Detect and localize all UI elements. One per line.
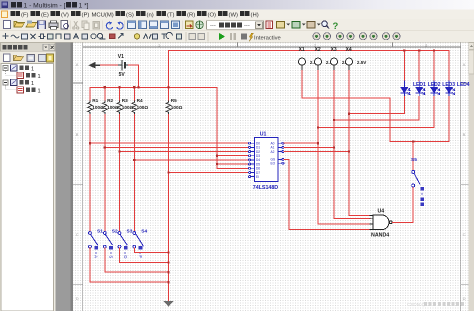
- print: [49, 21, 58, 30]
- svg-text:100Ω: 100Ω: [171, 105, 183, 110]
- wire: LED1 drop from rail: [403, 50, 405, 80]
- resistor R4: [132, 98, 148, 114]
- wire: X2 column down to NAND input 3: [318, 71, 370, 225]
- svg-text:D: D: [76, 296, 79, 301]
- wire: D5 from bus drop: [217, 163, 248, 165]
- wire: battery right lead down to bus: [129, 65, 139, 87]
- svg-text:R2: R2: [107, 98, 113, 103]
- open sample: [26, 21, 37, 28]
- magnifier: [322, 21, 329, 29]
- svg-text:1: 1: [31, 67, 34, 73]
- resistor R5: [166, 98, 182, 114]
- svg-text:S3: S3: [127, 229, 133, 235]
- svg-text:2.5V: 2.5V: [357, 60, 367, 65]
- wire: S3 bottom staircase to ground column: [120, 248, 169, 262]
- svg-text:1 - Multisim - [: 1 - Multisim - [: [24, 3, 66, 10]
- svg-text:100Ω: 100Ω: [137, 105, 149, 110]
- transfer icons: [186, 21, 194, 29]
- svg-text:---: ---: [244, 23, 250, 29]
- resistor R1: [88, 98, 104, 114]
- switch S3: [118, 229, 133, 259]
- wire: X3 column down to NAND input 2: [334, 71, 370, 219]
- save: [38, 21, 46, 29]
- wire: top rail to LEDs: [169, 49, 450, 51]
- wire: D7 from R5 column: [169, 172, 249, 174]
- title text: 设计1 - Multisim - [设计1 *]: [11, 2, 89, 10]
- svg-text:= A: = A: [94, 252, 99, 258]
- svg-text:C: C: [463, 232, 466, 237]
- svg-text:B: B: [76, 132, 79, 137]
- svg-text:A: A: [463, 62, 466, 67]
- svg-text:(P): (P): [82, 12, 90, 18]
- sheet frame lines: [83, 43, 461, 311]
- wire: LED2 bottom to X3 column: [334, 96, 419, 120]
- wire: GS to NAND input 4: [284, 159, 370, 229]
- child 2: [5, 85, 7, 89]
- wire: R4 column: [133, 87, 135, 231]
- svg-text:(E): (E): [41, 12, 49, 18]
- wire: riser from bus to top rail: [168, 50, 170, 87]
- wire: A2 to X4 column: [284, 151, 349, 153]
- menu bar: [0, 10, 474, 20]
- svg-text:?: ?: [333, 21, 339, 32]
- svg-text:U1: U1: [260, 131, 267, 137]
- toolbar row 2: [0, 31, 474, 43]
- wire: S1 bottom staircase to ground column: [90, 248, 169, 282]
- wire: S2 bottom staircase to ground column: [105, 248, 169, 272]
- svg-text:R4: R4: [137, 98, 143, 103]
- switch S5: [411, 142, 425, 206]
- svg-text:(O): (O): [208, 12, 217, 18]
- IC U1 74LS148D: [253, 131, 278, 191]
- svg-text:V1: V1: [118, 54, 124, 60]
- wire: bus drop to U1 D3 D5 D6: [216, 87, 218, 168]
- wire: LED3 bottom to X2 column: [318, 96, 434, 127]
- svg-text:S2: S2: [112, 229, 118, 235]
- svg-text:(R): (R): [187, 12, 195, 18]
- svg-text:= D: = D: [123, 252, 128, 259]
- wire: R5 / ground column: [168, 87, 170, 301]
- svg-text:(T): (T): [167, 12, 175, 18]
- probe X3: [331, 47, 353, 71]
- simulation controls: [219, 33, 225, 40]
- switch S1: [89, 229, 104, 259]
- border zone letters: [76, 42, 466, 301]
- wire: X1 staircase to LED4 line: [302, 71, 390, 142]
- wire: R3 column: [119, 87, 121, 231]
- svg-text:R3: R3: [122, 98, 128, 103]
- panel toolbar: [4, 54, 54, 62]
- probe X2: [315, 47, 337, 71]
- svg-text:D: D: [463, 296, 466, 301]
- svg-text:R5: R5: [171, 98, 177, 103]
- svg-text:X1: X1: [299, 47, 305, 53]
- svg-text:A: A: [76, 62, 79, 67]
- svg-text:R1: R1: [92, 98, 98, 103]
- svg-text:U4: U4: [378, 209, 385, 215]
- svg-text:= S: = S: [109, 252, 114, 259]
- svg-text:(S): (S): [126, 12, 134, 18]
- svg-text:X4: X4: [346, 47, 352, 53]
- root 2: [3, 80, 8, 85]
- ground: [164, 301, 174, 306]
- svg-text:C: C: [76, 232, 79, 237]
- LED4: [446, 81, 470, 97]
- svg-text:LED4: LED4: [457, 82, 470, 88]
- undo redo: [106, 22, 123, 29]
- svg-text:(V): (V): [61, 12, 69, 18]
- wire: R1 column: [89, 87, 91, 231]
- LED1: [401, 81, 426, 97]
- canvas backdrop: [56, 43, 474, 311]
- svg-text:S4: S4: [141, 229, 147, 235]
- LED2: [416, 81, 441, 97]
- wire: D6 from bus drop: [217, 167, 248, 169]
- svg-text:1 *]: 1 *]: [79, 3, 89, 10]
- right scrollbar: [469, 43, 474, 311]
- watermark: [407, 302, 464, 307]
- U1 right pins A0 A1 A2 GS EO: [278, 142, 284, 164]
- svg-text:(n): (n): [147, 12, 154, 18]
- input connector arrow: [89, 62, 100, 69]
- svg-text:1: 1: [38, 74, 41, 80]
- wire: battery left lead to input arrow: [99, 64, 118, 66]
- svg-text:X2: X2: [315, 47, 321, 53]
- U1 left pins D0-D7 EI (bubbles): [249, 142, 255, 178]
- border division ticks: [73, 43, 469, 285]
- title bar: [0, 0, 474, 10]
- panel header: [1, 43, 56, 51]
- LED3: [431, 81, 456, 97]
- wire: R2 column: [104, 87, 106, 231]
- battery V1: [118, 54, 129, 78]
- svg-text:NAND4: NAND4: [371, 232, 389, 238]
- svg-text:Interactive: Interactive: [254, 35, 281, 41]
- panel tree: [1, 64, 54, 311]
- wire: S4 bottom staircase to ground column: [134, 248, 168, 252]
- switch S2: [103, 229, 118, 259]
- wire: X4 column down to NAND input 1: [349, 71, 370, 216]
- toolbar row 1: [0, 19, 474, 31]
- new: [4, 21, 11, 29]
- svg-text:A2: A2: [271, 150, 275, 154]
- interactive box: [249, 33, 253, 42]
- wire: NAND output to S5: [392, 221, 413, 223]
- svg-text:S1: S1: [97, 229, 103, 235]
- svg-text:(H): (H): [251, 12, 259, 18]
- wire: D4 from R4 column: [134, 159, 248, 161]
- wire: A0 to X2 column: [284, 142, 318, 144]
- wire: S5 bottom to NAND output: [412, 187, 414, 222]
- svg-text:---: ---: [210, 23, 216, 29]
- NAND gate U4: [370, 209, 392, 239]
- sheet page with dot grid: [73, 43, 474, 311]
- preview: [61, 21, 68, 30]
- wire: LED4 drop from rail: [448, 50, 450, 80]
- open: [14, 22, 25, 28]
- resistor R2: [103, 98, 119, 114]
- child 1: [5, 71, 7, 75]
- wire: supply bus: [90, 86, 217, 88]
- right analysis icons: [313, 33, 400, 40]
- svg-text:1: 1: [38, 89, 41, 95]
- svg-text:B: B: [463, 132, 466, 137]
- svg-text:X3: X3: [331, 47, 337, 53]
- root 1: [3, 66, 8, 71]
- svg-text:1: 1: [31, 81, 34, 87]
- probe X1: [299, 47, 321, 71]
- svg-text:(F): (F): [21, 12, 29, 18]
- wire: LED3 drop from rail: [433, 50, 435, 80]
- wire: LED1 bottom to X4 column: [349, 96, 404, 113]
- svg-text:MCU(M): MCU(M): [92, 12, 114, 18]
- svg-text:74LS148D: 74LS148D: [253, 185, 278, 191]
- resistor R3: [117, 98, 133, 114]
- svg-text:EO: EO: [271, 162, 276, 166]
- wire: A1 to X3 column: [284, 146, 334, 148]
- svg-text:S5: S5: [411, 157, 417, 163]
- svg-text:5V: 5V: [119, 72, 126, 78]
- svg-text:EI: EI: [256, 175, 259, 179]
- svg-text:CSDN @: CSDN @: [407, 302, 426, 307]
- wire: D2 from R3 column: [120, 151, 249, 153]
- wire: D3 from bus drop: [217, 155, 248, 157]
- probe X4: [346, 47, 368, 71]
- svg-text:(W): (W): [229, 12, 239, 18]
- window/layout icons group: [128, 21, 180, 29]
- icons after combo: [266, 21, 273, 29]
- wire: LED2 drop from rail: [418, 50, 420, 80]
- cut copy paste (disabled): [73, 21, 100, 30]
- wire: D0 from R1 column: [90, 142, 248, 144]
- combo 在用列表: [207, 21, 264, 29]
- wire: D1 from R2 column: [105, 146, 249, 148]
- wire: LED4 bottom to X1 line: [390, 96, 449, 141]
- switch S4: [133, 229, 148, 259]
